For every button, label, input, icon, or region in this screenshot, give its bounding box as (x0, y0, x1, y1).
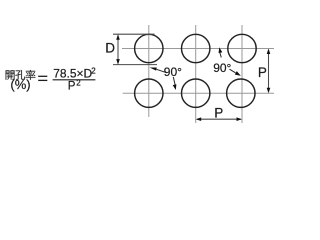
svg-text:90°: 90° (213, 61, 231, 75)
hole top-right (228, 34, 256, 62)
vertical center line column 2 (195, 25, 197, 123)
vertical center line column 1 (148, 25, 150, 117)
dimension D extension line bottom (113, 64, 157, 66)
horizontal center line row 2 (123, 92, 274, 94)
formula kanji 率 (26, 70, 36, 80)
formula kanji 孔 (15, 70, 25, 80)
formula kanji 開 (6, 70, 15, 79)
angle arrow down-right to column3 line (230, 69, 241, 76)
angle arrow up to row1 line (219, 47, 223, 57)
svg-text:D: D (105, 41, 115, 56)
angle arrow down to row2 line (173, 77, 177, 90)
dimension D extension line top (113, 33, 155, 35)
formula fraction bar (53, 79, 96, 81)
horizontal center line row 1 (122, 48, 274, 50)
vertical center line column 3 (241, 25, 243, 123)
formula equals sign (38, 76, 47, 80)
dimension D arrow line (116, 34, 120, 64)
dimension P vertical arrow line (267, 49, 271, 94)
hole top-left (135, 34, 163, 62)
svg-text:2: 2 (76, 79, 81, 88)
hole bottom-right (227, 79, 255, 107)
svg-text:78.5×D: 78.5×D (53, 67, 92, 81)
svg-text:P: P (214, 106, 223, 121)
dimension P horizontal arrow line (196, 117, 242, 121)
svg-text:90°: 90° (164, 65, 182, 79)
hole bottom-left (135, 79, 163, 107)
svg-text:2: 2 (91, 67, 96, 76)
angle arrow left-up to column1 line (150, 68, 167, 73)
svg-text:(%): (%) (10, 77, 30, 92)
svg-text:P: P (258, 65, 267, 80)
svg-text:P: P (68, 80, 76, 92)
hole bottom-middle (182, 79, 210, 107)
hole top-middle (182, 34, 210, 62)
